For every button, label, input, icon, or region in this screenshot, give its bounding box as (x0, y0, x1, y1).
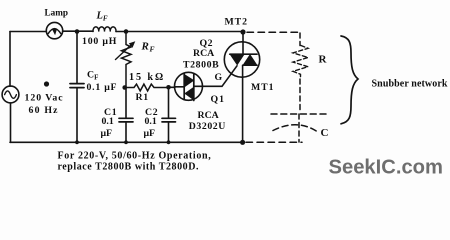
wire C2 branch (168, 87, 170, 118)
wire R1 to diac (169, 86, 176, 88)
svg-text:D3202U: D3202U (189, 121, 226, 132)
svg-text:100 μH: 100 μH (82, 36, 117, 47)
capacitor CF (70, 83, 84, 85)
svg-text:0.1 μF: 0.1 μF (87, 82, 118, 93)
brace snubber network (341, 36, 358, 124)
svg-text:For 220-V, 50/60-Hz Operation,: For 220-V, 50/60-Hz Operation, (58, 150, 212, 161)
svg-text:RF: RF (141, 41, 155, 54)
svg-text:μF: μF (144, 128, 156, 139)
svg-text:replace T2800B with T2800D.: replace T2800B with T2800D. (58, 162, 200, 173)
wire left vertical lower (10, 103, 12, 142)
wire bottom rail (10, 141, 243, 143)
wire CF branch lower (76, 88, 78, 142)
wire MT1 vertical (242, 65, 244, 142)
diac Q1 (175, 72, 203, 100)
resistor R snubber dashed (293, 46, 308, 80)
wire top rail inductor to MT2 junction (116, 31, 243, 33)
svg-text:Lamp: Lamp (45, 7, 69, 17)
wire CF branch upper (76, 32, 78, 84)
wire MT2 vertical (242, 32, 244, 54)
node MT1 bottom (240, 140, 245, 145)
svg-text:120 Vac: 120 Vac (25, 93, 64, 104)
triac Q2 (224, 42, 259, 77)
rheostat RF (122, 32, 132, 88)
svg-text:0.1: 0.1 (102, 116, 114, 127)
lamp (46, 22, 62, 38)
wire dashed bottom rail (246, 141, 302, 143)
node CF bottom (75, 140, 79, 144)
svg-text:C: C (321, 127, 329, 139)
wire gate from diac to triac (202, 66, 237, 87)
svg-text:Snubber network: Snubber network (372, 79, 448, 90)
svg-text:MT1: MT1 (251, 82, 274, 93)
node C2 bottom (167, 140, 171, 144)
wire C1 branch (125, 88, 127, 118)
wire top rail left of lamp (10, 31, 46, 33)
stray dot artifact (44, 81, 49, 86)
svg-text:Q1: Q1 (211, 94, 226, 105)
svg-text:0.1: 0.1 (145, 116, 157, 127)
capacitor C2 (162, 117, 176, 119)
svg-text:MT2: MT2 (225, 16, 248, 27)
node MT2 (240, 29, 245, 34)
AC source 120 Vac 60 Hz (2, 86, 19, 103)
svg-text:R: R (319, 54, 328, 66)
wire dashed top to snubber (247, 31, 300, 33)
wire left vertical upper (9, 32, 11, 87)
inductor LF (93, 27, 116, 32)
node CF tap (75, 29, 80, 34)
resistor R1 (126, 84, 168, 91)
svg-text:SeekIC.com: SeekIC.com (329, 157, 443, 179)
capacitor C snubber dashed (271, 113, 327, 115)
node RF tap (124, 29, 129, 34)
svg-text:LF: LF (96, 10, 108, 22)
svg-text:15 kΩ: 15 kΩ (129, 72, 165, 83)
svg-text:CF: CF (87, 70, 98, 82)
wire top rail lamp to inductor (63, 30, 93, 32)
svg-text:G: G (215, 72, 223, 83)
node R1/C1 (122, 85, 127, 90)
capacitor C1 (119, 117, 133, 119)
svg-text:R1: R1 (136, 92, 149, 103)
svg-text:RCA: RCA (193, 48, 214, 59)
svg-text:μF: μF (101, 128, 113, 139)
svg-text:RCA: RCA (198, 110, 219, 121)
svg-text:T2800B: T2800B (183, 60, 219, 71)
svg-text:60 Hz: 60 Hz (29, 105, 59, 116)
wire dashed R to C (299, 79, 301, 112)
node C2 (166, 85, 171, 90)
node C1 bottom (124, 140, 128, 144)
